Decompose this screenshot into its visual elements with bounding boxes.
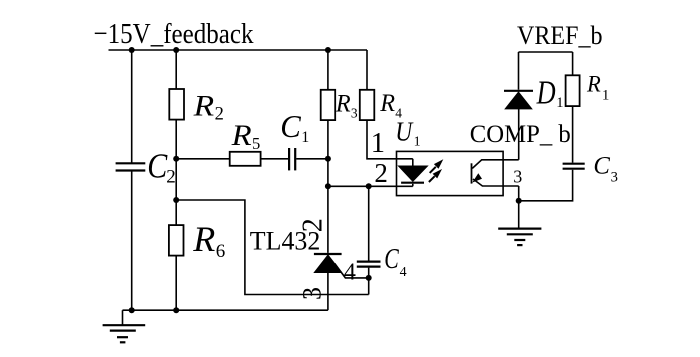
- wire VREF rail: [519, 51, 573, 53]
- node VREF_b label: [517, 20, 603, 50]
- wire C4 branch upper: [368, 186, 370, 260]
- svg-text:D: D: [536, 75, 556, 112]
- capacitor C1: [289, 148, 295, 170]
- TL432 triangle: [314, 255, 341, 273]
- TL432 reference wire: [335, 263, 369, 278]
- wire C2 branch upper: [131, 50, 133, 163]
- svg-text:1: 1: [556, 95, 563, 111]
- resistor R1: [566, 75, 580, 106]
- svg-text:2: 2: [166, 166, 176, 187]
- node top/C2: [129, 47, 135, 53]
- TL432 cathode bar: [314, 253, 342, 255]
- U1 LED triangle: [399, 166, 428, 181]
- wire R6 bottom lead: [175, 256, 177, 311]
- wire R3 vertical to TL432: [327, 120, 329, 253]
- TL432 cathode pin 2 label (rotated): [297, 218, 328, 232]
- node top/R2: [173, 47, 179, 53]
- node COMP_b label: [470, 121, 571, 148]
- wire C3 bottom to ground node: [519, 170, 573, 201]
- wire C1 to R3 line: [296, 158, 328, 160]
- svg-text:C: C: [384, 244, 399, 275]
- wire R4 to pin1 of U1: [367, 120, 413, 159]
- wire bottom ground rail: [123, 309, 328, 311]
- svg-text:C: C: [147, 146, 168, 185]
- U1 phototransistor base bar: [471, 163, 473, 183]
- TL432 label: [250, 226, 320, 255]
- node -15V_feedback label: [94, 18, 254, 50]
- optocoupler U1 box: [397, 151, 504, 195]
- U1 LED cathode bar: [401, 182, 424, 184]
- wire R5 to C1: [261, 158, 289, 160]
- node pin2/C4: [366, 183, 372, 189]
- node gnd/R6: [173, 307, 179, 313]
- svg-text:R: R: [586, 72, 601, 98]
- svg-text:R: R: [193, 90, 215, 123]
- svg-text:R: R: [231, 119, 252, 152]
- U1 LED anode bend: [412, 159, 414, 166]
- resistor R6: [169, 225, 184, 256]
- TL432 anode pin 3 label (rotated): [298, 287, 327, 300]
- wire C4 bottom lead: [368, 268, 370, 295]
- svg-text:3: 3: [513, 166, 522, 186]
- svg-text:1: 1: [301, 129, 309, 146]
- svg-text:−15V_feedback: −15V_feedback: [94, 18, 254, 50]
- wire C2 branch lower: [131, 171, 133, 310]
- wire R5 left: [176, 158, 230, 160]
- svg-text:R: R: [335, 88, 351, 117]
- node R3/pin2: [325, 183, 331, 189]
- svg-text:2: 2: [215, 105, 224, 125]
- wire pin2 from R3 line to U1: [328, 185, 413, 187]
- capacitor C4: [357, 262, 381, 267]
- capacitor C3: [563, 164, 585, 169]
- TL432 anode lead: [327, 273, 329, 311]
- node gnd/C2: [129, 307, 135, 313]
- node R2/R5: [173, 156, 179, 162]
- svg-text:1: 1: [414, 134, 421, 149]
- wire R2 bottom to R6: [175, 120, 177, 226]
- svg-text:6: 6: [216, 241, 226, 262]
- pin 3 label: [513, 166, 522, 186]
- svg-text:5: 5: [252, 134, 260, 153]
- svg-text:2: 2: [374, 158, 388, 188]
- U1 light arrow lower: [429, 176, 435, 182]
- wire D1 top lead: [518, 52, 520, 90]
- svg-text:1: 1: [371, 128, 385, 159]
- pin 2 label: [374, 158, 388, 188]
- wire emitter down to ground node: [518, 186, 520, 201]
- ground right: [518, 201, 520, 228]
- svg-text:4: 4: [400, 265, 407, 280]
- svg-text:3: 3: [351, 106, 358, 121]
- node R2/R6 tap: [173, 197, 179, 203]
- svg-text:C: C: [593, 151, 610, 180]
- svg-text:C: C: [280, 108, 301, 144]
- svg-text:3: 3: [298, 287, 327, 300]
- wire feedback tap to TL432 ref: [176, 200, 369, 295]
- diode D1 triangle: [505, 92, 532, 109]
- svg-text:1: 1: [602, 87, 610, 103]
- resistor R5: [230, 152, 261, 166]
- svg-text:U: U: [395, 117, 413, 147]
- ground left: [122, 310, 124, 325]
- diode D1 cathode bar: [504, 90, 533, 92]
- U1 emitter arrow: [472, 173, 482, 182]
- wire top rail: [109, 49, 368, 51]
- resistor R2: [169, 89, 184, 120]
- wire R1 top lead: [572, 52, 574, 75]
- U1 LED cathode stub: [412, 184, 414, 187]
- capacitor C2: [116, 163, 146, 170]
- svg-text:COMP_ b: COMP_ b: [470, 121, 571, 148]
- wire COMP_b / D1 vertical: [518, 109, 520, 160]
- svg-text:R: R: [192, 219, 215, 259]
- node pin3/C3/gnd: [516, 198, 522, 204]
- pin 4 label: [344, 259, 356, 285]
- wire R3 top lead: [327, 50, 329, 90]
- wire R4 top lead: [366, 50, 368, 90]
- svg-text:3: 3: [611, 169, 618, 185]
- U1 collector: [472, 160, 518, 169]
- node C1/R3: [325, 156, 331, 162]
- U1 light arrow upper: [430, 167, 436, 173]
- svg-text:4: 4: [344, 259, 356, 285]
- U1 emitter: [473, 179, 519, 186]
- node C4/ref: [366, 275, 372, 281]
- resistor R3: [321, 90, 336, 120]
- wire R1 to C3: [572, 106, 574, 163]
- svg-text:VREF_b: VREF_b: [517, 20, 603, 50]
- svg-text:2: 2: [297, 218, 328, 232]
- svg-text:R: R: [379, 88, 395, 117]
- pin 1 label: [371, 128, 385, 159]
- resistor R4: [360, 90, 375, 120]
- node top/R3: [325, 47, 331, 53]
- wire R2 top lead: [175, 50, 177, 89]
